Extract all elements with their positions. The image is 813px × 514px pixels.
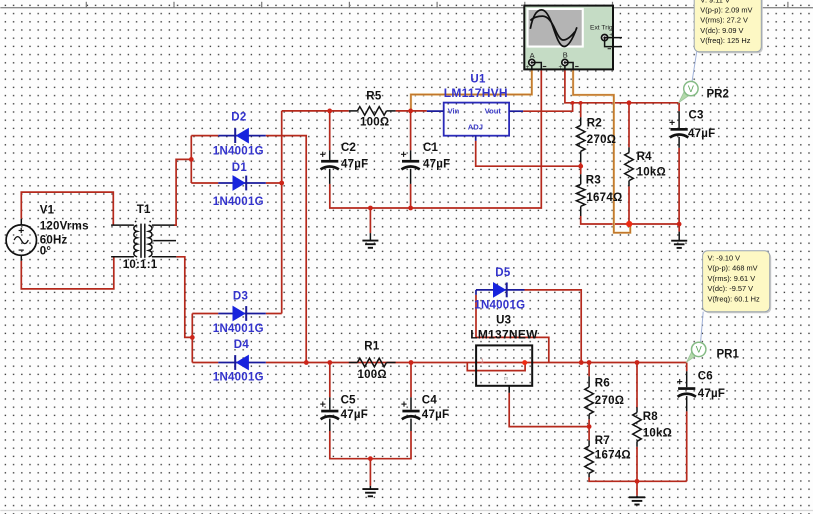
- svg-text:1674Ω: 1674Ω: [586, 192, 622, 204]
- svg-text:C3: C3: [689, 109, 704, 121]
- svg-text:+: +: [526, 64, 530, 71]
- svg-text:R4: R4: [637, 151, 653, 163]
- svg-text:47µF: 47µF: [698, 388, 725, 400]
- svg-text:100Ω: 100Ω: [358, 369, 387, 381]
- svg-text:V(freq): 125 Hz: V(freq): 125 Hz: [700, 36, 750, 45]
- svg-text:V: V: [696, 345, 702, 355]
- svg-text:R3: R3: [586, 174, 601, 186]
- svg-text:1N4001G: 1N4001G: [474, 300, 525, 312]
- svg-text:V(p-p): 468 mV: V(p-p): 468 mV: [708, 264, 758, 273]
- svg-text:47µF: 47µF: [422, 409, 449, 421]
- svg-text:100Ω: 100Ω: [360, 117, 389, 129]
- svg-text:m: m: [504, 376, 509, 382]
- svg-text:1N4001G: 1N4001G: [213, 146, 264, 158]
- svg-text:Vin: Vin: [448, 107, 460, 116]
- svg-text:10kΩ: 10kΩ: [643, 427, 672, 439]
- svg-text:60Hz: 60Hz: [40, 234, 68, 246]
- svg-text:D4: D4: [234, 339, 250, 351]
- svg-text:D3: D3: [233, 290, 248, 302]
- svg-text:R8: R8: [643, 411, 659, 423]
- svg-text:D2: D2: [231, 111, 246, 123]
- svg-text:270Ω: 270Ω: [587, 134, 616, 146]
- svg-text:+: +: [609, 31, 613, 38]
- svg-text:120Vrms: 120Vrms: [40, 221, 89, 233]
- svg-text:47µF: 47µF: [688, 128, 715, 140]
- svg-text:V1: V1: [40, 205, 55, 217]
- svg-text:R6: R6: [595, 377, 610, 389]
- svg-text:V(dc): -9.57 V: V(dc): -9.57 V: [708, 284, 754, 293]
- svg-text:T1: T1: [137, 204, 151, 216]
- svg-text:C6: C6: [698, 370, 713, 382]
- svg-text:1674Ω: 1674Ω: [595, 450, 631, 462]
- svg-text:10:1:1: 10:1:1: [123, 259, 158, 271]
- svg-text:Vout: Vout: [485, 107, 502, 116]
- svg-text:V: -9.10 V: V: -9.10 V: [708, 254, 741, 263]
- svg-text:B: B: [563, 51, 568, 60]
- svg-text:47µF: 47µF: [423, 158, 450, 170]
- svg-text:47µF: 47µF: [341, 409, 368, 421]
- svg-text:+: +: [559, 64, 563, 71]
- svg-text:C4: C4: [422, 395, 438, 407]
- svg-text:V(freq): 60.1 Hz: V(freq): 60.1 Hz: [708, 294, 760, 303]
- svg-text:R7: R7: [595, 435, 610, 447]
- svg-text:PR2: PR2: [707, 89, 729, 101]
- svg-text:ADJ: ADJ: [468, 123, 483, 132]
- svg-text:270Ω: 270Ω: [595, 395, 624, 407]
- svg-text:C2: C2: [341, 142, 356, 154]
- svg-text:LM117HVH: LM117HVH: [444, 86, 508, 100]
- svg-text:10kΩ: 10kΩ: [637, 167, 666, 179]
- svg-text:D1: D1: [232, 162, 248, 174]
- svg-text:D5: D5: [495, 267, 511, 279]
- svg-text:1N4001G: 1N4001G: [213, 371, 264, 383]
- svg-text:LM137NEW: LM137NEW: [470, 328, 538, 342]
- svg-text:V(dc): 9.09 V: V(dc): 9.09 V: [700, 26, 743, 35]
- svg-text:U3: U3: [496, 315, 511, 327]
- svg-text:R2: R2: [587, 117, 602, 129]
- svg-text:R1: R1: [364, 341, 380, 353]
- svg-text:V: 9.11 V: V: 9.11 V: [700, 0, 730, 4]
- svg-text:V(rms): 9.61 V: V(rms): 9.61 V: [708, 274, 756, 283]
- svg-text:0°: 0°: [40, 246, 52, 258]
- svg-text:1N4001G: 1N4001G: [213, 323, 264, 335]
- svg-text:V: V: [688, 84, 694, 94]
- svg-text:V(p-p): 2.09 mV: V(p-p): 2.09 mV: [700, 6, 752, 15]
- svg-text:1N4001G: 1N4001G: [213, 196, 264, 208]
- svg-text:V(rms): 27.2 V: V(rms): 27.2 V: [700, 16, 748, 25]
- svg-text:U1: U1: [470, 73, 486, 85]
- svg-text:C5: C5: [341, 395, 357, 407]
- svg-text:PR1: PR1: [717, 349, 740, 361]
- svg-text:47µF: 47µF: [341, 158, 368, 170]
- svg-text:C1: C1: [423, 142, 439, 154]
- svg-text:A: A: [530, 51, 535, 60]
- svg-text:R5: R5: [366, 90, 382, 102]
